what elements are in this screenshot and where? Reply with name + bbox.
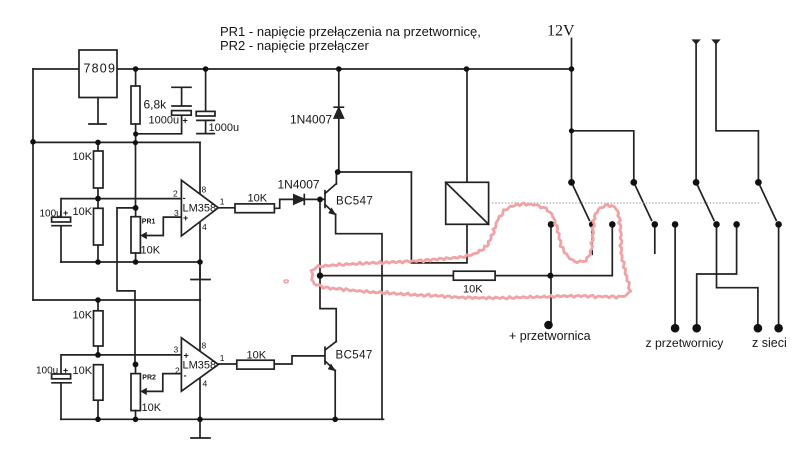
transistor Q1 BC547 — [325, 172, 382, 419]
wire contact S3a to terminal — [674, 224, 676, 328]
svg-text:10K: 10K — [248, 193, 268, 205]
wire base drop net — [319, 199, 321, 275]
wire contact S1a to terminal — [550, 224, 552, 325]
ground block1 — [191, 262, 210, 280]
svg-text:BC547: BC547 — [336, 350, 373, 362]
wire pin2 net — [61, 199, 181, 217]
svg-text:4: 4 — [202, 222, 207, 232]
wire opamp1 supply vertical — [199, 142, 201, 300]
svg-text:1N4007: 1N4007 — [278, 178, 320, 192]
pink stray fleck — [284, 280, 289, 283]
svg-text:BC547: BC547 — [336, 196, 373, 208]
svg-text:10K: 10K — [463, 284, 483, 296]
svg-text:10K: 10K — [73, 365, 93, 377]
wire 10K sense net — [320, 224, 612, 275]
svg-text:1000u: 1000u — [149, 115, 180, 127]
relay K1 — [446, 182, 489, 224]
svg-text:PR2 - napięcie przełączer: PR2 - napięcie przełączer — [220, 38, 370, 53]
svg-text:2: 2 — [175, 366, 180, 376]
ground block2 — [191, 419, 210, 438]
wire mid rail y142 — [33, 141, 200, 143]
node rail dots — [133, 66, 139, 72]
svg-text:+: + — [184, 351, 189, 361]
svg-text:10K: 10K — [73, 310, 93, 322]
node switch contacts — [548, 221, 555, 228]
svg-text:100u: 100u — [40, 209, 62, 220]
diode D2 1N4007 — [294, 195, 325, 205]
wire jog to diode — [274, 199, 293, 208]
pink highlight loop — [311, 203, 631, 299]
resistor R5 10K opamp2 out — [217, 356, 324, 369]
svg-text:10K: 10K — [142, 402, 162, 414]
wire sw3 feed — [695, 41, 697, 182]
potentiometer PR2 — [131, 364, 181, 419]
svg-text:6,8k: 6,8k — [144, 98, 168, 112]
svg-text:8: 8 — [202, 185, 207, 195]
svg-text:+: + — [183, 213, 188, 223]
capacitor C1 100u — [52, 217, 71, 262]
wire sw4 feed — [716, 41, 758, 182]
svg-text:1000u: 1000u — [209, 122, 240, 134]
svg-text:4: 4 — [203, 379, 208, 389]
node terminals — [544, 321, 553, 330]
svg-text:+ przetwornica: + przetwornica — [509, 329, 591, 343]
wire contact stub S2b — [654, 224, 656, 253]
wire relay coil net — [338, 172, 467, 263]
resistor R7 10K block2 lower — [94, 365, 104, 420]
wire contact S4a crossover — [697, 224, 737, 328]
svg-text:-: - — [184, 371, 187, 381]
7809 U1 — [79, 50, 117, 124]
svg-text:+: + — [63, 366, 68, 376]
diode D1 1N4007 — [334, 69, 343, 172]
resistor R1 10K upper divider — [94, 142, 104, 208]
op-amp U2A LM358 — [181, 180, 218, 236]
wire pin3 net block2 — [61, 355, 181, 374]
resistor R3 10K — [235, 204, 274, 213]
wire block2 top rail — [33, 299, 200, 301]
wire contact S4b to terminal — [778, 224, 780, 328]
capacitor C2 1000u — [136, 87, 192, 134]
node switch poles — [568, 179, 575, 186]
svg-text:PR1: PR1 — [142, 219, 156, 226]
wire rail to PR1 top — [135, 142, 137, 208]
svg-text:7809: 7809 — [84, 62, 117, 76]
wire contact stub S1b — [591, 224, 593, 254]
svg-text:+: + — [63, 208, 68, 218]
svg-text:8: 8 — [202, 341, 207, 351]
op-amp U2B LM358 — [181, 338, 218, 391]
wire block2 bottom rail — [61, 418, 384, 420]
resistor 6,8k — [131, 69, 140, 142]
svg-text:z przetwornicy: z przetwornicy — [646, 336, 725, 350]
svg-text:2: 2 — [173, 189, 178, 199]
svg-text:1: 1 — [220, 353, 225, 363]
switch blade S2 — [634, 182, 652, 220]
wire block1 bottom rail — [61, 261, 200, 263]
resistor R2 10K lower divider — [94, 208, 104, 262]
svg-text:3: 3 — [174, 208, 179, 218]
switch blade S4 — [758, 182, 776, 220]
potentiometer PR1 — [131, 217, 181, 262]
svg-text:PR2: PR2 — [142, 375, 156, 382]
wire relay top stem — [466, 69, 468, 182]
wire q2 collector net — [320, 276, 336, 342]
resistor R6 10K block2 upper — [94, 300, 104, 355]
wire contact S3b crossover — [717, 224, 758, 328]
svg-text:10K: 10K — [73, 206, 93, 218]
svg-text:10K: 10K — [141, 245, 161, 257]
transistor Q2 BC547 — [325, 342, 336, 420]
svg-text:100u: 100u — [36, 366, 58, 377]
svg-text:+: + — [183, 116, 188, 126]
wire PR1 top stem — [135, 208, 137, 217]
svg-text:1: 1 — [220, 197, 225, 207]
svg-text:LM358: LM358 — [183, 360, 217, 372]
svg-text:1N4007: 1N4007 — [290, 113, 332, 127]
capacitor C3 1000u — [196, 69, 215, 134]
wire PR1 feed net — [117, 208, 136, 365]
switch blade S1 — [572, 182, 590, 220]
wire opamp1 output — [218, 207, 235, 209]
svg-text:12V: 12V — [547, 23, 575, 40]
wire opamp2 supply vertical — [199, 300, 201, 419]
svg-text:PR1 - napięcie przełączenia na: PR1 - napięcie przełączenia na przetworn… — [220, 24, 481, 39]
svg-text:-: - — [183, 193, 186, 203]
dotted line relay linkage — [489, 202, 760, 204]
svg-text:3: 3 — [174, 345, 179, 355]
capacitor C4 100u — [52, 374, 71, 419]
wire 12V drop — [571, 39, 573, 183]
wire top rail 9V — [33, 68, 572, 70]
svg-text:10K: 10K — [73, 151, 93, 163]
wire left rail — [32, 69, 34, 300]
switch blade S3 — [696, 182, 714, 220]
wire sw2 feed — [572, 131, 634, 183]
resistor R4 10K sense — [453, 271, 495, 280]
svg-text:10K: 10K — [247, 350, 267, 362]
svg-text:z sieci: z sieci — [752, 336, 787, 350]
